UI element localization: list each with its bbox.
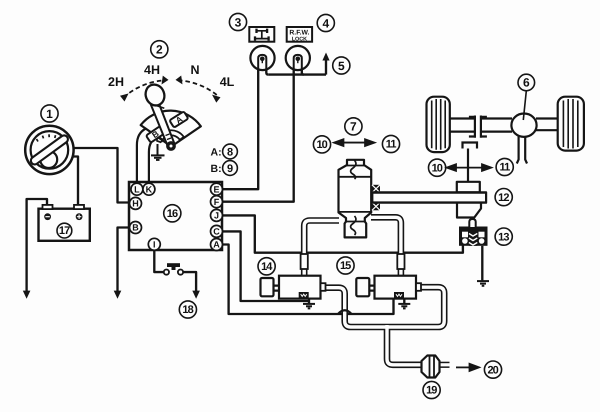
svg-text:J: J	[214, 211, 219, 221]
svg-text:20: 20	[487, 364, 498, 376]
svg-text:A: A	[213, 240, 220, 250]
svg-text:17: 17	[59, 225, 70, 237]
svg-text:11: 11	[386, 139, 397, 151]
svg-text:4L: 4L	[220, 75, 235, 89]
svg-text:16: 16	[167, 208, 178, 220]
svg-text:19: 19	[426, 385, 437, 397]
svg-text:B: B	[132, 223, 139, 233]
svg-text:I: I	[153, 239, 156, 249]
svg-text:4H: 4H	[144, 63, 160, 77]
svg-text:2: 2	[156, 43, 163, 57]
svg-text:LOCK: LOCK	[292, 36, 307, 42]
svg-text:15: 15	[340, 260, 351, 272]
svg-text:8: 8	[227, 146, 233, 158]
svg-text:18: 18	[182, 304, 193, 316]
svg-text:3: 3	[235, 15, 242, 29]
svg-text:4: 4	[322, 16, 329, 30]
svg-text:13: 13	[498, 231, 509, 243]
svg-text:L: L	[134, 184, 140, 194]
svg-text:C: C	[213, 227, 220, 237]
svg-text:K: K	[146, 184, 153, 194]
svg-text:10: 10	[316, 139, 327, 151]
svg-text:2H: 2H	[108, 75, 124, 89]
svg-text:14: 14	[261, 261, 273, 273]
svg-text:9: 9	[227, 163, 233, 175]
svg-text:10: 10	[432, 162, 443, 174]
svg-text:5: 5	[338, 59, 345, 73]
svg-text:A:: A:	[211, 146, 222, 158]
svg-text:N: N	[190, 63, 199, 77]
svg-text:H: H	[132, 199, 139, 209]
svg-text:6: 6	[523, 76, 530, 90]
svg-text:7: 7	[350, 120, 357, 134]
svg-text:11: 11	[499, 162, 510, 174]
svg-text:F: F	[214, 197, 220, 207]
svg-text:12: 12	[498, 192, 509, 204]
svg-text:B:: B:	[211, 163, 222, 175]
svg-text:E: E	[213, 184, 219, 194]
svg-text:1: 1	[46, 107, 53, 121]
